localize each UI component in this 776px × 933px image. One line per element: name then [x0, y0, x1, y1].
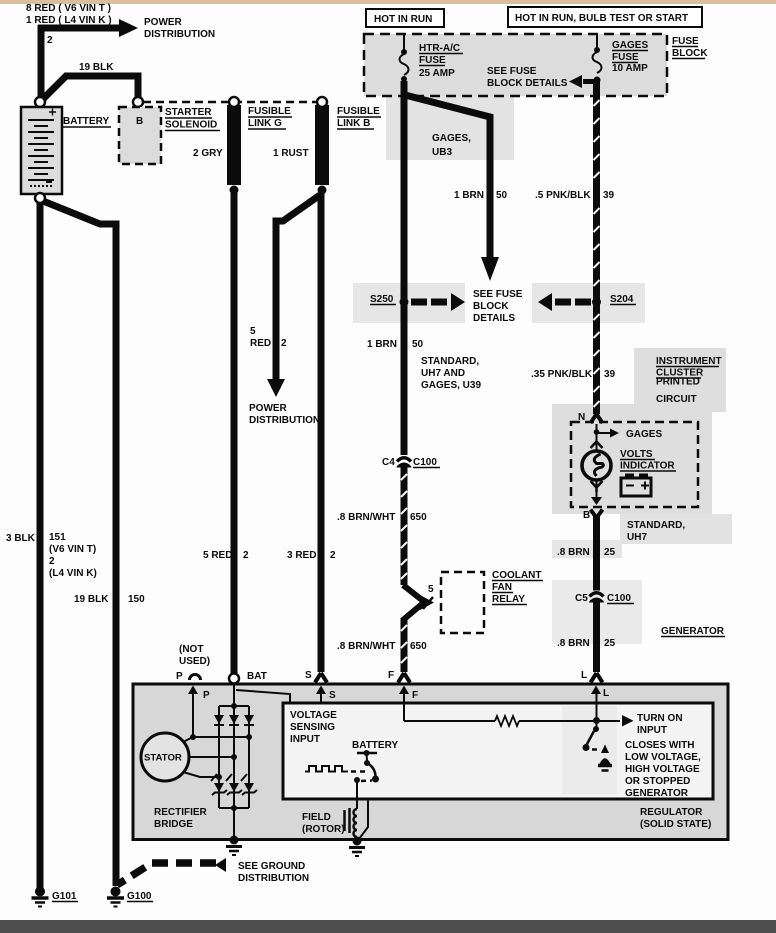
wire: .35 PNK/BLK S204 to cluster N [593, 302, 600, 414]
svg-text:UB3: UB3 [432, 147, 452, 158]
svg-text:BLOCK DETAILS: BLOCK DETAILS [487, 78, 568, 89]
svg-text:1 RUST: 1 RUST [273, 148, 309, 159]
svg-text:.8 BRN/WHT: .8 BRN/WHT [337, 641, 395, 652]
svg-text:19 BLK: 19 BLK [74, 594, 109, 605]
svg-text:25 AMP: 25 AMP [419, 68, 455, 79]
svg-text:INPUT: INPUT [290, 734, 320, 745]
terminal L prongs [581, 670, 603, 683]
dashed link field to switch contact [361, 779, 372, 782]
svg-text:FUSIBLE: FUSIBLE [248, 106, 291, 117]
svg-text:.8 BRN/WHT: .8 BRN/WHT [337, 512, 395, 523]
svg-text:1 RED ( L4 VIN K ): 1 RED ( L4 VIN K ) [26, 15, 112, 26]
turn on input line with resistor [404, 715, 634, 727]
field coil FIELD (ROTOR) [345, 808, 358, 837]
wire: 1 BRN continues down to C4 [401, 302, 408, 455]
svg-text:BAT: BAT [247, 671, 267, 682]
gray scan patch: S204 area [532, 283, 645, 323]
pointer arrow to see fuse block details [569, 75, 594, 88]
top tan border bar [0, 0, 776, 4]
svg-text:SEE FUSE: SEE FUSE [473, 289, 523, 300]
stator phase C line [183, 772, 219, 777]
svg-text:SOLENOID: SOLENOID [165, 120, 217, 131]
svg-text:P: P [203, 690, 210, 701]
svg-text:39: 39 [603, 190, 615, 201]
svg-text:INDICATOR: INDICATOR [620, 461, 675, 472]
internal F lead with arrowhead [399, 686, 418, 722]
svg-text:(L4 VIN K): (L4 VIN K) [49, 568, 97, 579]
svg-text:650: 650 [410, 641, 427, 652]
battery BATTERY [21, 107, 62, 194]
svg-text:.8 BRN: .8 BRN [557, 547, 590, 558]
svg-text:SEE FUSE: SEE FUSE [487, 66, 537, 77]
node L junction [593, 717, 600, 724]
bridge ground lead [233, 808, 235, 840]
svg-text:FUSIBLE: FUSIBLE [337, 106, 380, 117]
splice S250 [370, 293, 465, 311]
fuse block box [364, 34, 667, 96]
splice S204 [538, 293, 636, 311]
svg-text:(V6 VIN T): (V6 VIN T) [49, 544, 96, 555]
svg-text:STARTER: STARTER [165, 107, 212, 118]
svg-text:RELAY: RELAY [492, 594, 525, 605]
fuse GAGES 10 AMP [593, 34, 602, 84]
svg-text:FUSE: FUSE [672, 36, 699, 47]
dashed link squarewave to switch [351, 770, 368, 773]
svg-text:2: 2 [243, 550, 249, 561]
stator phase B line [189, 756, 234, 758]
terminal P cap [176, 671, 201, 682]
svg-text:50: 50 [496, 190, 508, 201]
diode D3 [244, 715, 254, 725]
svg-text:DISTRIBUTION: DISTRIBUTION [238, 873, 309, 884]
svg-text:BRIDGE: BRIDGE [154, 819, 193, 830]
svg-text:2: 2 [281, 338, 287, 349]
svg-text:GAGES: GAGES [612, 40, 648, 51]
svg-text:HIGH VOLTAGE: HIGH VOLTAGE [625, 764, 700, 775]
svg-text:3 RED: 3 RED [287, 550, 316, 561]
wire: branch to power distribution (5 RED) [276, 195, 320, 380]
svg-text:.8 BRN: .8 BRN [557, 638, 590, 649]
svg-text:2: 2 [47, 35, 53, 46]
ground (rectifier) [226, 836, 242, 856]
generator box [133, 684, 728, 840]
wire stripes on .8 BRN/WHT [401, 474, 407, 663]
regulator battery sense symbol [352, 740, 398, 783]
svg-text:SEE GROUND: SEE GROUND [238, 861, 305, 872]
svg-text:2: 2 [330, 550, 336, 561]
svg-text:1 BRN: 1 BRN [454, 190, 484, 201]
svg-text:S: S [305, 670, 312, 681]
zener diode D6 [241, 774, 257, 795]
svg-text:25: 25 [604, 547, 616, 558]
wire: battery feed vertical [38, 25, 45, 100]
wire: .8 BRN cluster B to C5 [593, 516, 600, 591]
svg-text:LOW VOLTAGE,: LOW VOLTAGE, [625, 752, 701, 763]
internal L lead with arrowhead [591, 686, 609, 721]
svg-text:2: 2 [49, 556, 55, 567]
volts indicator lamp U1 [582, 451, 611, 480]
svg-text:SENSING: SENSING [290, 722, 335, 733]
svg-text:FUSE: FUSE [612, 52, 639, 63]
svg-text:BLOCK: BLOCK [672, 48, 708, 59]
svg-text:PRINTED: PRINTED [656, 377, 700, 388]
fusible link G [227, 97, 241, 195]
svg-text:2 GRY: 2 GRY [193, 148, 223, 159]
svg-text:GAGES: GAGES [626, 429, 662, 440]
svg-text:FIELD: FIELD [302, 812, 331, 823]
svg-text:BATTERY: BATTERY [352, 740, 398, 751]
svg-text:FAN: FAN [492, 582, 512, 593]
terminal: solenoid B [133, 97, 143, 107]
svg-text:B: B [136, 116, 143, 127]
wire: fusible link B to S terminal (3 RED) [318, 193, 325, 672]
svg-text:GENERATOR: GENERATOR [661, 626, 725, 637]
ground G100 [107, 887, 153, 907]
svg-text:5: 5 [250, 326, 256, 337]
gray scan patch: below fuse block [386, 96, 514, 160]
zener diode D4 [211, 774, 227, 795]
terminal B connector [583, 510, 603, 522]
trace below volts indicator [596, 480, 598, 498]
svg-text:INPUT: INPUT [637, 725, 667, 736]
connector C5 C100 [575, 593, 634, 604]
svg-text:HOT IN RUN: HOT IN RUN [374, 14, 432, 25]
svg-text:650: 650 [410, 512, 427, 523]
svg-text:5 RED: 5 RED [203, 550, 232, 561]
square wave signal [305, 766, 348, 772]
starter solenoid [119, 107, 161, 164]
svg-text:HOT IN RUN, BULB TEST OR STAR: HOT IN RUN, BULB TEST OR START [515, 13, 688, 24]
field feed line [356, 780, 358, 809]
svg-text:19 BLK: 19 BLK [79, 62, 114, 73]
BAT sense line to regulator [236, 690, 290, 704]
wire: power distribution arm with arrow [38, 25, 120, 32]
svg-text:G101: G101 [52, 891, 77, 902]
svg-text:POWER: POWER [144, 17, 183, 28]
gray scan patch: .8 brn label areas [552, 540, 622, 558]
internal P lead with arrowhead [188, 686, 210, 738]
rectifier bridge top bus [219, 705, 249, 707]
svg-text:CLOSES WITH: CLOSES WITH [625, 740, 694, 751]
svg-text:25: 25 [604, 638, 616, 649]
wire: fusible link G to BAT terminal (5 RED) [231, 193, 238, 674]
svg-text:.35 PNK/BLK: .35 PNK/BLK [531, 369, 593, 380]
bridge column 1 [218, 706, 220, 808]
wire: .8 BRN C5 to L terminal [593, 602, 600, 673]
node HOT IN RUN, BULB TEST OR START [508, 7, 702, 27]
svg-text:39: 39 [604, 369, 616, 380]
instrument cluster dashed box [571, 422, 698, 507]
svg-text:F: F [388, 670, 394, 681]
internal L lead inside regulator [596, 703, 598, 720]
svg-text:UH7: UH7 [627, 532, 647, 543]
connector chevron above volts indicator [591, 442, 603, 449]
dashed bus: solenoid to fusible links [143, 101, 317, 104]
svg-text:GAGES,: GAGES, [432, 133, 471, 144]
svg-text:LINK B: LINK B [337, 118, 370, 129]
fuse HTR-A/C 25 AMP [400, 34, 409, 82]
svg-text:(SOLID STATE): (SOLID STATE) [640, 819, 711, 830]
wire: 1 BRN from HTR fuse down [401, 81, 408, 302]
node HOT IN RUN [366, 9, 444, 27]
svg-text:C5: C5 [575, 593, 588, 604]
svg-text:(NOT: (NOT [179, 644, 203, 655]
stator phase A line [183, 737, 249, 742]
svg-text:OR STOPPED: OR STOPPED [625, 776, 690, 787]
svg-text:GENERATOR: GENERATOR [625, 788, 689, 799]
gray scan patch: standard uh7 area [620, 514, 732, 544]
terminal: battery negative [35, 193, 45, 203]
diode D1 [214, 715, 224, 725]
diode D2 [229, 715, 239, 725]
svg-text:USED): USED) [179, 656, 210, 667]
wire: .5 PNK/BLK from gages fuse [593, 82, 600, 302]
down arrowhead at cluster exit [591, 497, 602, 505]
svg-text:VOLTS: VOLTS [620, 449, 653, 460]
svg-text:POWER: POWER [249, 403, 288, 414]
field coil to ground [356, 837, 359, 840]
wire: battery negative to G100 [43, 201, 116, 886]
coolant fan relay box [441, 572, 484, 633]
bridge column 2 [233, 706, 235, 808]
svg-text:BATTERY: BATTERY [63, 116, 109, 127]
gray patch near switch [562, 706, 617, 794]
svg-text:150: 150 [128, 594, 145, 605]
terminal: battery positive [35, 97, 45, 107]
svg-text:COOLANT: COOLANT [492, 570, 541, 581]
regulator ground return [359, 799, 368, 839]
svg-text:STANDARD,: STANDARD, [627, 520, 685, 531]
svg-text:TURN ON: TURN ON [637, 713, 683, 724]
switch ground contact [598, 745, 612, 771]
svg-text:BLOCK: BLOCK [473, 301, 509, 312]
svg-text:50: 50 [412, 339, 424, 350]
chevron below volts indicator [591, 481, 603, 492]
gray scan patch: instrument cluster box area [552, 404, 712, 514]
wire: .8 BRN/WHT relay tap to F terminal [401, 618, 408, 672]
wire stripes on .5 PNK/BLK [594, 100, 600, 286]
svg-text:C100: C100 [607, 593, 631, 604]
wire: .8 BRN/WHT C4 to relay tap [401, 467, 408, 586]
svg-text:151: 151 [49, 532, 66, 543]
node dot gages branch [594, 429, 600, 435]
svg-text:UH7 AND: UH7 AND [421, 368, 465, 379]
node BAT-bridge junction [231, 703, 237, 709]
svg-text:S250: S250 [370, 294, 394, 305]
svg-text:S204: S204 [610, 294, 634, 305]
wire tap arrow to coolant fan relay [403, 585, 434, 620]
gray scan patch: instrument cluster text area [634, 348, 726, 412]
wire: 19 BLK battery to solenoid [43, 76, 138, 99]
fusible link B [315, 97, 329, 195]
svg-text:3 BLK: 3 BLK [6, 533, 36, 544]
svg-text:L: L [581, 670, 587, 681]
wire: battery negative to G101 [37, 203, 44, 888]
ground (field) [349, 837, 365, 857]
svg-text:8 RED ( V6 VIN T ): 8 RED ( V6 VIN T ) [26, 3, 111, 14]
battery icon in cluster [621, 474, 651, 497]
stator [141, 733, 189, 781]
svg-text:.5 PNK/BLK: .5 PNK/BLK [535, 190, 591, 201]
svg-text:1 BRN: 1 BRN [367, 339, 397, 350]
terminal S prongs [305, 670, 327, 683]
svg-text:LINK G: LINK G [248, 118, 282, 129]
svg-text:HTR-A/C: HTR-A/C [419, 43, 460, 54]
gray scan patch: S250 area [353, 283, 465, 323]
regulator box [283, 703, 713, 799]
svg-text:GAGES, U39: GAGES, U39 [421, 380, 481, 391]
svg-text:G100: G100 [127, 891, 152, 902]
svg-text:STANDARD,: STANDARD, [421, 356, 479, 367]
svg-text:C100: C100 [413, 457, 437, 468]
svg-text:B: B [583, 510, 590, 521]
dashed pointer to ground distribution [117, 858, 226, 885]
svg-text:DISTRIBUTION: DISTRIBUTION [249, 415, 320, 426]
internal BAT lead [233, 683, 235, 706]
terminal F prongs [388, 670, 410, 683]
svg-text:REGULATOR: REGULATOR [640, 807, 703, 818]
printed circuit trace from N [596, 424, 598, 452]
svg-text:L: L [603, 688, 609, 699]
node field junction [354, 777, 360, 783]
svg-text:CIRCUIT: CIRCUIT [656, 394, 697, 405]
regulator switch [583, 721, 600, 751]
svg-text:(ROTOR): (ROTOR) [302, 824, 345, 835]
wire: branch to gages ub3 arrow [405, 95, 490, 258]
svg-text:10 AMP: 10 AMP [612, 63, 648, 74]
svg-text:DETAILS: DETAILS [473, 313, 515, 324]
svg-text:RED: RED [250, 338, 271, 349]
svg-text:STATOR: STATOR [144, 753, 182, 764]
svg-text:F: F [412, 690, 418, 701]
bottom gray border bar [0, 920, 776, 933]
svg-text:RECTIFIER: RECTIFIER [154, 807, 208, 818]
wire stripes on .35 PNK/BLK [594, 314, 600, 407]
arrow to GAGES [597, 429, 663, 441]
svg-text:FUSE: FUSE [419, 55, 446, 66]
internal F lead inside regulator [403, 703, 405, 721]
svg-text:5: 5 [428, 584, 434, 595]
zener diode D5 [226, 774, 242, 795]
ground G101 [32, 887, 79, 907]
terminal N connector [578, 412, 603, 423]
svg-text:S: S [329, 690, 336, 701]
svg-text:P: P [176, 671, 183, 682]
svg-text:DISTRIBUTION: DISTRIBUTION [144, 29, 215, 40]
bridge column 3 [248, 706, 250, 808]
connector C4 C100 [382, 457, 440, 468]
terminal BAT [229, 671, 267, 684]
bridge bottom bus [219, 807, 249, 809]
svg-text:C4: C4 [382, 457, 395, 468]
internal S lead with arrowhead [316, 686, 336, 705]
svg-text:INSTRUMENT: INSTRUMENT [656, 356, 722, 367]
svg-text:VOLTAGE: VOLTAGE [290, 710, 337, 721]
